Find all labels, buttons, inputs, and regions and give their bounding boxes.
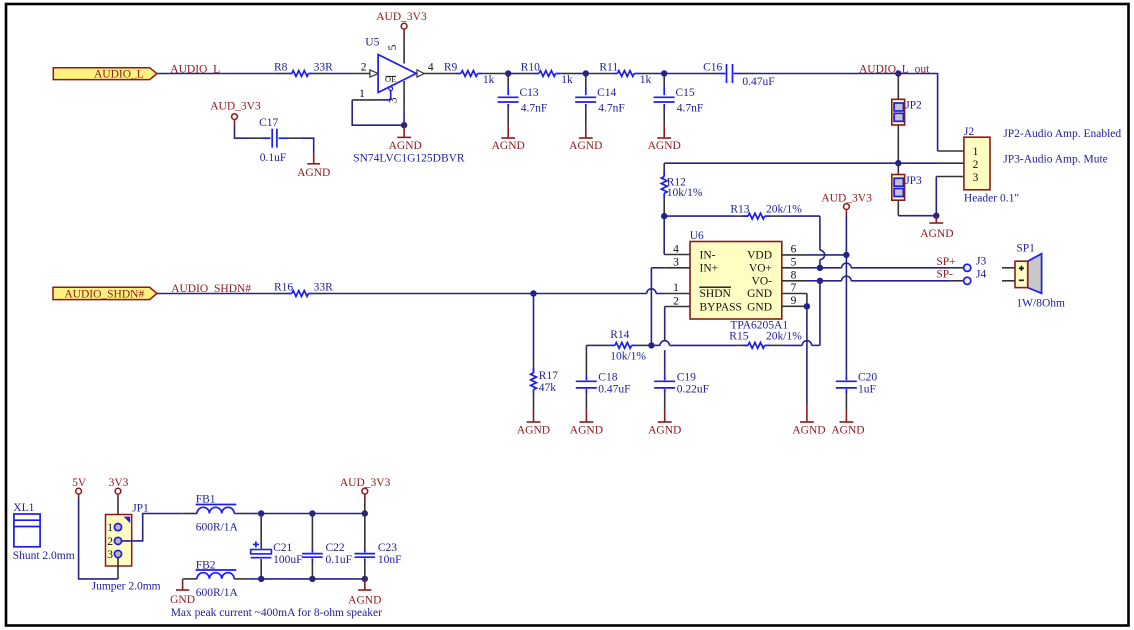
svg-text:2: 2: [673, 295, 679, 307]
resistor R8: [274, 62, 334, 77]
svg-text:VO+: VO+: [749, 263, 772, 275]
svg-text:J3: J3: [976, 256, 986, 268]
ground AGND at C14: [569, 125, 602, 152]
svg-text:AGND: AGND: [648, 140, 681, 152]
capacitor C23: [355, 514, 402, 579]
svg-text:47k: 47k: [539, 382, 557, 394]
capacitor C15: [654, 74, 704, 126]
svg-text:0.1uF: 0.1uF: [326, 554, 353, 566]
svg-text:BYPASS: BYPASS: [700, 301, 742, 313]
resistor R10: [521, 62, 574, 87]
net label SP-: [936, 269, 953, 281]
svg-text:Header 0.1": Header 0.1": [964, 193, 1019, 205]
svg-text:XL1: XL1: [13, 502, 34, 514]
U5 pin 1 wire: [352, 88, 404, 125]
junction rail C23 bot: [362, 576, 368, 582]
wire GND pins to AGND: [806, 306, 808, 404]
wire AUDIO_L flag to R8: [157, 73, 274, 75]
svg-text:AGND: AGND: [920, 228, 953, 240]
svg-text:R13: R13: [730, 204, 749, 216]
svg-text:33R: 33R: [314, 282, 334, 294]
svg-text:3: 3: [973, 172, 979, 184]
svg-text:3: 3: [673, 257, 679, 269]
svg-text:AGND: AGND: [389, 140, 422, 152]
junction R14 R15 IN+: [648, 342, 654, 348]
svg-text:20k/1%: 20k/1%: [766, 204, 802, 216]
ferrite bead FB2: [184, 559, 248, 599]
svg-text:4.7nF: 4.7nF: [598, 103, 625, 115]
wire FB2 to rail: [248, 578, 261, 580]
svg-text:C21: C21: [273, 542, 292, 554]
svg-text:SP1: SP1: [1016, 243, 1035, 255]
svg-text:600R/1A: 600R/1A: [196, 587, 239, 599]
svg-text:2: 2: [973, 159, 979, 171]
svg-text:1: 1: [673, 282, 679, 294]
svg-text:IN-: IN-: [700, 249, 716, 261]
svg-text:C15: C15: [676, 87, 695, 99]
label SN74LVC1G125DBVR: [353, 153, 465, 165]
power AUD_3V3 bottom: [340, 477, 391, 514]
svg-text:SP-: SP-: [936, 269, 953, 281]
svg-text:1uF: 1uF: [858, 383, 876, 395]
U6 pin 6 VDD: [782, 243, 847, 255]
resistor R11: [586, 62, 652, 87]
wire R8 to U5 pin2: [327, 73, 354, 75]
svg-text:U6: U6: [690, 230, 704, 242]
wire to SHDN pin: [534, 289, 665, 294]
capacitor C17: [249, 117, 300, 164]
power 3V3: [109, 477, 129, 498]
svg-text:4.7nF: 4.7nF: [521, 103, 548, 115]
junction AGND node J2: [933, 213, 939, 219]
svg-text:AUD_3V3: AUD_3V3: [340, 477, 391, 489]
svg-text:AGND: AGND: [570, 425, 603, 437]
svg-text:Shunt 2.0mm: Shunt 2.0mm: [13, 550, 75, 562]
wire VO- to SP-: [820, 276, 951, 281]
svg-text:600R/1A: 600R/1A: [196, 522, 239, 534]
svg-text:OE: OE: [385, 74, 396, 84]
capacitor C19: [654, 372, 709, 410]
resistor R15: [651, 331, 820, 349]
svg-text:JP2: JP2: [905, 100, 922, 112]
power 5V: [72, 477, 87, 498]
svg-text:GND: GND: [747, 288, 772, 300]
ground AGND at C13: [492, 125, 525, 152]
net label AUDIO_SHDN#: [171, 283, 251, 295]
jumper JP1: [106, 503, 150, 567]
note JP3-Audio Amp. Mute: [1003, 154, 1107, 166]
capacitor C21: [251, 514, 303, 579]
svg-text:J4: J4: [976, 268, 986, 280]
svg-text:JP3-Audio Amp. Mute: JP3-Audio Amp. Mute: [1003, 154, 1107, 166]
U6 pin 9 GND: [782, 295, 807, 307]
ground AGND at C19: [648, 409, 681, 437]
svg-text:SP+: SP+: [936, 256, 955, 268]
wire R15 to VO-: [819, 281, 821, 346]
wire JP1 pin2 to FB1: [121, 514, 184, 541]
svg-text:GND: GND: [170, 594, 195, 606]
svg-text:AGND: AGND: [792, 425, 825, 437]
ground AGND bottom rail: [348, 579, 381, 606]
svg-text:0.47uF: 0.47uF: [598, 383, 630, 395]
svg-text:R16: R16: [274, 282, 293, 294]
junction VDD: [843, 252, 849, 258]
svg-text:AUD_3V3: AUD_3V3: [821, 193, 872, 205]
svg-text:C17: C17: [259, 117, 278, 129]
wire bottom rail: [261, 578, 365, 580]
svg-text:3: 3: [388, 97, 400, 103]
svg-text:33R: 33R: [314, 62, 334, 74]
svg-text:FB2: FB2: [196, 559, 216, 571]
capacitor C22: [302, 514, 352, 579]
junction C13: [505, 70, 511, 76]
power AUD_3V3 at U6: [821, 193, 872, 255]
speaker SP1: [1002, 243, 1065, 310]
wire junction to J2 pin2: [898, 162, 964, 164]
label Jumper 2.0mm: [92, 581, 161, 593]
junction rail C22 bot: [309, 576, 315, 582]
jumper JP3: [892, 163, 922, 200]
svg-text:C19: C19: [677, 372, 696, 384]
svg-text:IN+: IN+: [700, 263, 719, 275]
ground AGND at U6 GND: [792, 404, 825, 437]
svg-text:10nF: 10nF: [378, 554, 402, 566]
svg-text:R11: R11: [599, 62, 618, 74]
power AUD_3V3 at C17: [210, 101, 261, 126]
U5 pin 5 power: [387, 33, 404, 64]
wire R16 to junction: [327, 293, 534, 295]
op-amp buffer U5: [353, 37, 434, 93]
svg-text:AUDIO_SHDN#: AUDIO_SHDN#: [64, 288, 144, 300]
wire C16 to AUDIO_L_out: [754, 73, 899, 75]
svg-text:U5: U5: [365, 37, 379, 49]
U6 pin 1: [665, 282, 690, 294]
U6 pin 3: [651, 257, 690, 269]
svg-text:R15: R15: [729, 331, 748, 343]
wire C17 to AGND: [300, 138, 314, 154]
svg-text:Max peak current ~400mA for 8-: Max peak current ~400mA for 8-ohm speake…: [171, 607, 382, 619]
junction C14: [583, 70, 589, 76]
testpoint J4: [951, 268, 987, 284]
wire C13 to R10: [508, 73, 521, 75]
svg-text:4: 4: [428, 61, 434, 73]
svg-text:AGND: AGND: [348, 594, 381, 606]
svg-text:1k: 1k: [483, 74, 495, 86]
svg-text:10k/1%: 10k/1%: [610, 351, 646, 363]
svg-text:J2: J2: [964, 126, 974, 138]
resistor R13: [664, 204, 820, 219]
ground AGND at C17: [297, 154, 330, 179]
svg-text:JP3: JP3: [905, 175, 922, 187]
svg-text:C20: C20: [858, 372, 877, 384]
junction R12 R13: [661, 213, 667, 219]
capacitor C20: [836, 372, 878, 410]
wire C15 to C16: [664, 73, 705, 75]
svg-text:R10: R10: [521, 62, 540, 74]
testpoint J3: [951, 256, 987, 272]
svg-text:AUD_3V3: AUD_3V3: [210, 101, 261, 113]
connector XL1: [13, 502, 75, 562]
junction AUDIO_L_out: [895, 70, 901, 76]
svg-text:Jumper 2.0mm: Jumper 2.0mm: [92, 581, 161, 593]
svg-text:C16: C16: [703, 62, 722, 74]
wire VO+ to SP+: [820, 263, 951, 268]
port AUDIO_L: [53, 68, 157, 81]
resistor R17: [531, 294, 559, 410]
svg-text:AGND: AGND: [648, 425, 681, 437]
wire R10 to C14: [573, 73, 585, 75]
svg-text:4.7nF: 4.7nF: [677, 103, 704, 115]
svg-text:VDD: VDD: [747, 249, 772, 261]
svg-text:C14: C14: [597, 87, 616, 99]
wire R13 to VO+: [820, 216, 825, 268]
svg-text:3V3: 3V3: [109, 477, 129, 489]
svg-text:1: 1: [359, 88, 365, 100]
svg-text:AGND: AGND: [297, 167, 330, 179]
ground AGND at C15: [648, 125, 681, 152]
ground AGND at U5: [389, 125, 422, 152]
svg-text:1W/8Ohm: 1W/8Ohm: [1016, 298, 1065, 310]
svg-text:SHDN: SHDN: [700, 288, 732, 300]
junction VO+: [817, 265, 823, 271]
U5 pin 3: [388, 81, 405, 125]
svg-text:AGND: AGND: [517, 425, 550, 437]
U6 pin 4: [664, 216, 690, 255]
junction AUDIO_SHDN R17: [530, 290, 536, 296]
junction rail C22 top: [309, 510, 315, 516]
resistor R9: [424, 62, 505, 87]
svg-text:0.22uF: 0.22uF: [677, 383, 709, 395]
junction GND pins: [804, 303, 810, 309]
svg-text:C13: C13: [520, 87, 539, 99]
wire IN+ vertical: [650, 268, 652, 346]
jumper JP2: [892, 99, 922, 125]
capacitor C16: [703, 62, 775, 89]
svg-text:1k: 1k: [640, 74, 652, 86]
wire R11 to C15: [652, 73, 664, 75]
svg-text:0.1uF: 0.1uF: [260, 152, 287, 164]
wire 5V down: [79, 498, 118, 579]
note JP2-Audio Amp. Enabled: [1003, 128, 1121, 140]
U6 pin 7 GND: [782, 282, 807, 306]
wire FB1 to rail: [248, 513, 261, 515]
svg-text:2: 2: [361, 61, 367, 73]
svg-text:4: 4: [673, 243, 679, 255]
capacitor C13: [498, 74, 548, 126]
svg-text:R17: R17: [539, 370, 558, 382]
svg-text:1: 1: [107, 522, 113, 534]
net label SP+: [936, 256, 955, 268]
svg-text:AUD_3V3: AUD_3V3: [376, 11, 427, 23]
svg-text:5: 5: [791, 257, 797, 269]
net label AUDIO_L: [170, 63, 220, 75]
svg-text:6: 6: [791, 243, 797, 255]
svg-text:20k/1%: 20k/1%: [766, 331, 802, 343]
svg-text:7: 7: [791, 282, 797, 294]
power AUD_3V3 at U5: [376, 11, 427, 33]
wire flag to R16: [157, 293, 274, 295]
svg-text:1: 1: [973, 146, 979, 158]
U6 pin 8 VO-: [782, 270, 820, 282]
svg-text:JP2-Audio Amp. Enabled: JP2-Audio Amp. Enabled: [1003, 128, 1121, 140]
junction C15: [661, 70, 667, 76]
junction rail C23 top: [362, 510, 368, 516]
svg-text:R14: R14: [610, 329, 629, 341]
wire 3V3 to JP1 pin1: [117, 498, 119, 524]
wire AUDIO_L_out to J2 pin1: [898, 74, 964, 152]
svg-text:3: 3: [107, 549, 113, 561]
svg-text:2: 2: [107, 536, 113, 548]
junction rail C21 bot: [258, 576, 264, 582]
junction JP2 JP3 node: [895, 160, 901, 166]
resistor R12: [661, 163, 703, 216]
capacitor C19 wire: [664, 307, 666, 376]
wire AUD_3V3 to C17: [235, 125, 250, 138]
svg-text:10k/1%: 10k/1%: [667, 187, 703, 199]
svg-text:R8: R8: [274, 62, 288, 74]
svg-text:9: 9: [791, 295, 797, 307]
svg-text:0.47uF: 0.47uF: [742, 76, 774, 88]
header J2: [964, 126, 1019, 205]
svg-text:VO-: VO-: [752, 276, 773, 288]
ground AGND at C18: [570, 409, 603, 437]
wire top rail: [261, 513, 365, 515]
svg-text:1k: 1k: [561, 74, 573, 86]
svg-text:AGND: AGND: [569, 140, 602, 152]
svg-text:5: 5: [387, 44, 399, 50]
resistor R16: [274, 282, 334, 297]
capacitor C18: [576, 345, 631, 409]
wire R12 top rail: [664, 162, 898, 164]
svg-text:C18: C18: [598, 372, 617, 384]
ferrite bead FB1: [184, 494, 248, 534]
svg-text:GND: GND: [747, 301, 772, 313]
wire JP1 pin3 down: [117, 557, 119, 579]
amplifier U6 TPA6205A1: [690, 230, 789, 332]
ground GND at FB2: [170, 579, 195, 606]
resistor R14: [586, 329, 651, 363]
wire to JP2: [897, 74, 899, 100]
junction U5 pin3: [401, 122, 407, 128]
junction rail C21 top: [258, 510, 264, 516]
U6 pin 2: [665, 295, 690, 307]
svg-text:8: 8: [791, 270, 797, 282]
junction VO-: [817, 278, 823, 284]
svg-text:SN74LVC1G125DBVR: SN74LVC1G125DBVR: [353, 153, 465, 165]
wire JP3 to AGND node: [898, 200, 936, 216]
svg-text:C23: C23: [378, 542, 397, 554]
net label AUDIO_L_out: [859, 63, 930, 75]
svg-text:AGND: AGND: [492, 140, 525, 152]
svg-text:AGND: AGND: [831, 425, 864, 437]
svg-text:C22: C22: [326, 542, 345, 554]
wire AUD_3V3 down to C20: [845, 255, 847, 376]
ground AGND at R17: [517, 409, 550, 437]
svg-text:5V: 5V: [72, 477, 87, 489]
wire J2 pin3: [936, 177, 964, 216]
svg-text:100uF: 100uF: [273, 554, 302, 566]
U6 pin 5 VO+: [782, 257, 820, 269]
port AUDIO_SHDN#: [53, 287, 157, 300]
svg-text:FB1: FB1: [196, 494, 216, 506]
svg-text:R9: R9: [444, 62, 458, 74]
ground AGND at J2: [920, 216, 953, 240]
wire JP2 to junction: [897, 125, 899, 163]
ground AGND at C20: [831, 409, 864, 437]
capacitor C14: [575, 74, 625, 126]
note max peak current: [171, 607, 382, 619]
svg-text:AUDIO_L: AUDIO_L: [94, 68, 144, 80]
